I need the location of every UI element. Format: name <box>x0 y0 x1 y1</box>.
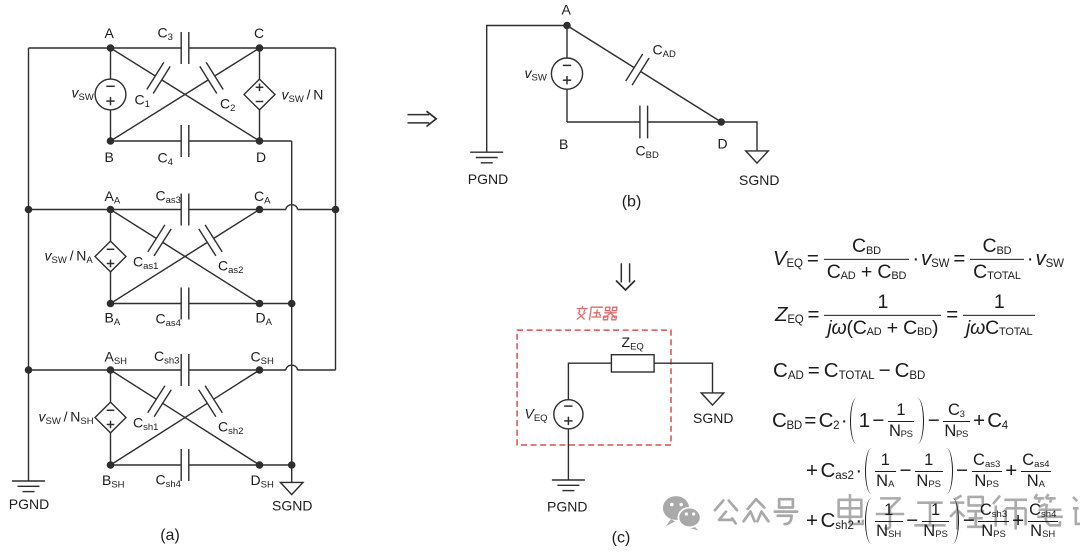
svg-text:C2​: C2​ <box>220 96 235 115</box>
wire diagonal for Cas2 <box>111 210 260 304</box>
equation ZEQ <box>775 292 1036 338</box>
capacitor C4 <box>181 125 189 157</box>
red dashed transformer box <box>517 330 671 445</box>
svg-text:D: D <box>718 136 728 152</box>
svg-text:SGND: SGND <box>272 498 312 514</box>
svg-text:Cas2​: Cas2​ <box>218 258 243 277</box>
voltage source VEQ (circle, - top + bottom) <box>554 400 583 429</box>
wire row ASH-CSH with hop over D rail <box>29 365 336 370</box>
watermark wechat icon <box>663 496 701 530</box>
wire diagonal for Csh2 <box>111 370 260 465</box>
equation CBD line 3 <box>806 498 1059 544</box>
wire stem ASH to vSW/NSH source to BSH <box>110 370 112 465</box>
svg-text:ZEQ​: ZEQ​ <box>622 334 644 353</box>
wire D to SGND (b) <box>721 122 757 151</box>
svg-text:Csh3​: Csh3​ <box>154 348 179 367</box>
resistor-style impedance box ZEQ <box>611 355 654 372</box>
svg-text:CA​: CA​ <box>254 188 271 207</box>
svg-text:C3​: C3​ <box>158 25 173 44</box>
svg-text:SGND: SGND <box>739 172 779 188</box>
svg-text:Cas4​: Cas4​ <box>156 311 181 330</box>
wire top row A-C <box>29 47 336 49</box>
node DSH <box>256 461 264 469</box>
dependent source vSW/N (diamond) <box>244 79 275 110</box>
wire stem A - vSW - B <box>566 26 568 123</box>
node D rail DSH <box>288 461 296 469</box>
capacitor Cas2 <box>199 225 222 256</box>
wire VEQ bottom to PGND (c) <box>567 429 569 480</box>
svg-text:PGND: PGND <box>468 171 508 187</box>
wire stem A to vSW source to B <box>110 48 112 141</box>
capacitor Csh3 <box>181 354 189 386</box>
svg-text:vSW​ / NA​: vSW​ / NA​ <box>45 248 94 267</box>
svg-text:C4​: C4​ <box>158 150 173 169</box>
svg-text:BA​: BA​ <box>105 310 121 329</box>
node A (b) <box>563 22 571 30</box>
node D (b) <box>717 118 725 126</box>
node CA <box>256 206 264 214</box>
watermark text "electronics engineer notes" (CJK outline gray) <box>839 494 1080 530</box>
node left rail AA <box>25 206 33 214</box>
watermark text "public account" (CJK solid gray) <box>715 499 797 524</box>
node BSH <box>107 461 115 469</box>
capacitor C1 <box>147 62 170 93</box>
node left rail ASH <box>25 366 33 374</box>
svg-text:BSH​: BSH​ <box>102 472 125 491</box>
svg-text:A: A <box>562 2 572 18</box>
svg-text:Csh2​: Csh2​ <box>218 419 243 438</box>
node C <box>256 44 264 52</box>
equation CBD line 2 <box>806 448 1052 494</box>
node CSH <box>256 366 264 374</box>
svg-text:Cas1​: Cas1​ <box>133 254 158 273</box>
node BA <box>107 300 115 308</box>
svg-text:ASH​: ASH​ <box>105 349 128 368</box>
wire stem C to vSW/N source to D <box>259 48 261 141</box>
svg-text:C: C <box>254 25 264 41</box>
ground PGND (b) (earth symbol) <box>470 152 503 163</box>
wire row BSH-DSH <box>111 464 292 466</box>
node right rail CA <box>332 206 340 214</box>
wire right rail C-CA-CSH <box>335 48 337 370</box>
svg-text:PGND: PGND <box>9 496 49 512</box>
node D <box>256 137 264 145</box>
voltage source vSW (circle, - top + bottom) <box>95 79 126 110</box>
equation VEQ <box>773 236 1064 282</box>
capacitor CAD <box>626 54 649 85</box>
svg-text:(c): (c) <box>612 530 631 547</box>
capacitor Csh4 <box>181 449 189 481</box>
ground SGND (b) (open triangle) <box>746 151 769 163</box>
red label "transformer" (CJK) above dashed box <box>576 307 618 320</box>
svg-text:Csh1​: Csh1​ <box>133 415 158 434</box>
svg-text:SGND: SGND <box>693 410 733 426</box>
wire diagonal for Csh1 <box>111 370 260 465</box>
wire row B-D <box>111 140 292 142</box>
capacitor Csh2 <box>199 386 223 417</box>
capacitor C2 <box>200 62 223 93</box>
node A <box>107 44 115 52</box>
wire ZEQ right to SGND (c) <box>654 363 712 393</box>
arrow right double (implies) between (a) and (b) <box>408 111 437 126</box>
wire row BA-DA <box>111 303 292 305</box>
node ASH <box>107 366 115 374</box>
wire A to left corner down to PGND (b) <box>487 26 567 153</box>
svg-text:Cas3​: Cas3​ <box>156 188 181 207</box>
capacitor Csh1 <box>148 386 172 417</box>
svg-text:VEQ​: VEQ​ <box>525 406 548 425</box>
capacitor CBD <box>640 106 648 139</box>
wire row B-D <box>567 121 721 123</box>
equation CBD line 1 <box>772 398 1008 444</box>
capacitor Cas3 <box>181 194 189 226</box>
equation CAD <box>773 360 925 382</box>
svg-text:CAD​: CAD​ <box>653 42 676 61</box>
svg-text:PGND: PGND <box>547 499 587 515</box>
svg-text:C1​: C1​ <box>135 92 150 111</box>
svg-text:D: D <box>256 149 266 165</box>
ground SGND (c) (open triangle) <box>701 393 724 405</box>
capacitor Cas4 <box>181 288 189 320</box>
svg-text:A: A <box>105 25 115 41</box>
ground PGND (a) (earth symbol) <box>12 481 45 492</box>
svg-text:(b): (b) <box>622 194 642 211</box>
capacitor C3 <box>181 32 189 64</box>
arrow down double (implies) between (b) and (c) <box>616 263 635 290</box>
dependent source vSW/NSH (diamond) <box>95 402 126 433</box>
wire left rail PGND (A, AA, ASH common) <box>28 48 30 481</box>
ground PGND (c) (earth symbol) <box>552 480 585 491</box>
ground SGND (a) (open triangle) <box>280 482 303 494</box>
svg-text:B: B <box>559 136 568 152</box>
svg-text:vSW​ / NSH​: vSW​ / NSH​ <box>39 409 94 428</box>
node AA <box>107 206 115 214</box>
wire diagonal for C2 <box>111 48 260 141</box>
capacitor Cas1 <box>148 225 171 256</box>
voltage source vSW (b) (circle, - top + bottom) <box>551 58 582 89</box>
wire VEQ top to ZEQ left <box>568 363 611 400</box>
svg-text:vSW​: vSW​ <box>525 65 547 84</box>
svg-text:CBD​: CBD​ <box>636 143 659 162</box>
wire D rail D-DA-DSH to SGND <box>291 141 293 482</box>
svg-text:(a): (a) <box>160 527 180 544</box>
svg-text:Csh4​: Csh4​ <box>156 472 181 491</box>
wire diagonal for CAD <box>567 26 721 123</box>
wire row AA-CA with hop over D rail <box>29 205 336 210</box>
svg-text:CSH​: CSH​ <box>251 349 274 368</box>
svg-text:vSW​: vSW​ <box>72 85 94 104</box>
node D rail DA <box>288 300 296 308</box>
svg-text:AA​: AA​ <box>105 188 121 207</box>
wire diagonal for C1 <box>111 48 260 141</box>
svg-text:B: B <box>105 149 114 165</box>
wire diagonal for Cas1 <box>111 210 260 304</box>
svg-text:DSH​: DSH​ <box>251 472 274 491</box>
dependent source vSW/NA (diamond) <box>95 241 126 272</box>
node B <box>107 137 115 145</box>
svg-text:vSW​ / N: vSW​ / N <box>282 87 324 106</box>
wire stem AA to vSW/NA source to BA <box>110 210 112 304</box>
node DA <box>256 300 264 308</box>
svg-text:DA​: DA​ <box>256 310 273 329</box>
